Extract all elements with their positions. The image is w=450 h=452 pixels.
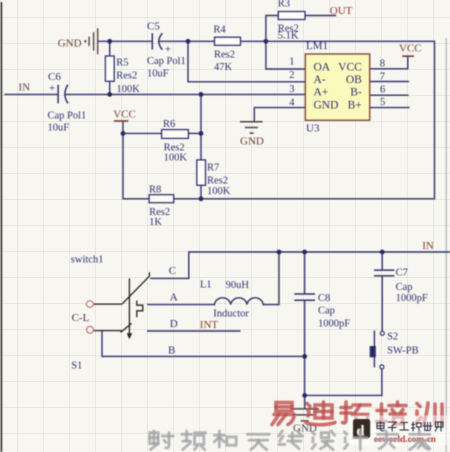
svg-text:5.1K: 5.1K [278,31,299,42]
svg-text:R3: R3 [278,0,290,10]
svg-text:1000pF: 1000pF [396,293,428,304]
svg-text:100K: 100K [207,186,231,197]
svg-text:D: D [170,318,178,330]
svg-text:6: 6 [380,85,385,96]
svg-text:Cap Pol1: Cap Pol1 [147,56,186,67]
svg-text:LM1: LM1 [306,40,328,52]
svg-text:OA: OA [314,61,331,73]
svg-text:Res2: Res2 [116,71,137,82]
svg-text:8: 8 [380,58,385,69]
svg-text:B-: B- [350,87,362,99]
svg-text:2: 2 [289,70,294,81]
svg-text:VCC: VCC [338,61,362,73]
svg-text:1000pF: 1000pF [318,318,350,329]
svg-text:4: 4 [289,97,295,108]
svg-text:B: B [168,345,175,357]
svg-text:B+: B+ [348,100,362,112]
svg-text:R8: R8 [149,185,161,196]
svg-text:A+: A+ [314,87,329,99]
svg-text:U3: U3 [306,123,320,135]
svg-text:Inductor: Inductor [213,309,249,320]
svg-text:90uH: 90uH [226,280,250,291]
svg-text:switch1: switch1 [71,255,104,266]
svg-text:C6: C6 [48,71,61,83]
svg-text:+: + [49,83,55,95]
svg-text:47K: 47K [214,62,233,73]
svg-text:S1: S1 [71,361,82,372]
svg-text:C5: C5 [147,21,160,33]
svg-text:R5: R5 [116,58,128,69]
svg-text:Res2: Res2 [207,176,228,187]
svg-text:10uF: 10uF [48,123,70,134]
svg-text:3: 3 [289,84,294,95]
svg-text:GND: GND [58,38,82,50]
svg-text:1K: 1K [149,217,162,228]
svg-text:INT: INT [200,319,219,331]
svg-text:10uF: 10uF [147,69,169,80]
svg-text:IN: IN [19,82,31,94]
svg-text:100K: 100K [164,153,188,164]
svg-text:C8: C8 [318,293,330,304]
svg-text:S2: S2 [387,332,398,343]
svg-text:C7: C7 [396,268,408,279]
svg-text:C-L: C-L [72,312,90,324]
svg-text:5: 5 [380,97,385,108]
svg-text:OUT: OUT [330,5,353,17]
svg-text:100K: 100K [117,84,141,95]
svg-text:SW-PB: SW-PB [387,345,419,356]
svg-text:VCC: VCC [399,42,422,54]
svg-text:7: 7 [380,72,385,83]
svg-text:IN: IN [422,240,434,252]
svg-text:Cap Pol1: Cap Pol1 [48,111,87,122]
svg-text:C: C [169,265,176,277]
svg-text:OB: OB [346,74,362,86]
svg-text:VCC: VCC [113,109,136,121]
svg-text:1: 1 [289,56,294,67]
svg-text:GND: GND [314,100,339,112]
svg-text:R7: R7 [207,163,219,174]
svg-text:GND: GND [240,136,264,148]
svg-text:R4: R4 [213,25,226,36]
svg-text:Cap: Cap [318,306,335,317]
svg-text:R6: R6 [163,119,175,130]
svg-text:+: + [165,44,171,56]
svg-text:A-: A- [314,74,326,86]
svg-text:Res2: Res2 [214,50,235,61]
svg-text:A: A [170,292,178,304]
svg-text:Cap: Cap [396,282,413,293]
svg-text:L1: L1 [200,280,212,291]
